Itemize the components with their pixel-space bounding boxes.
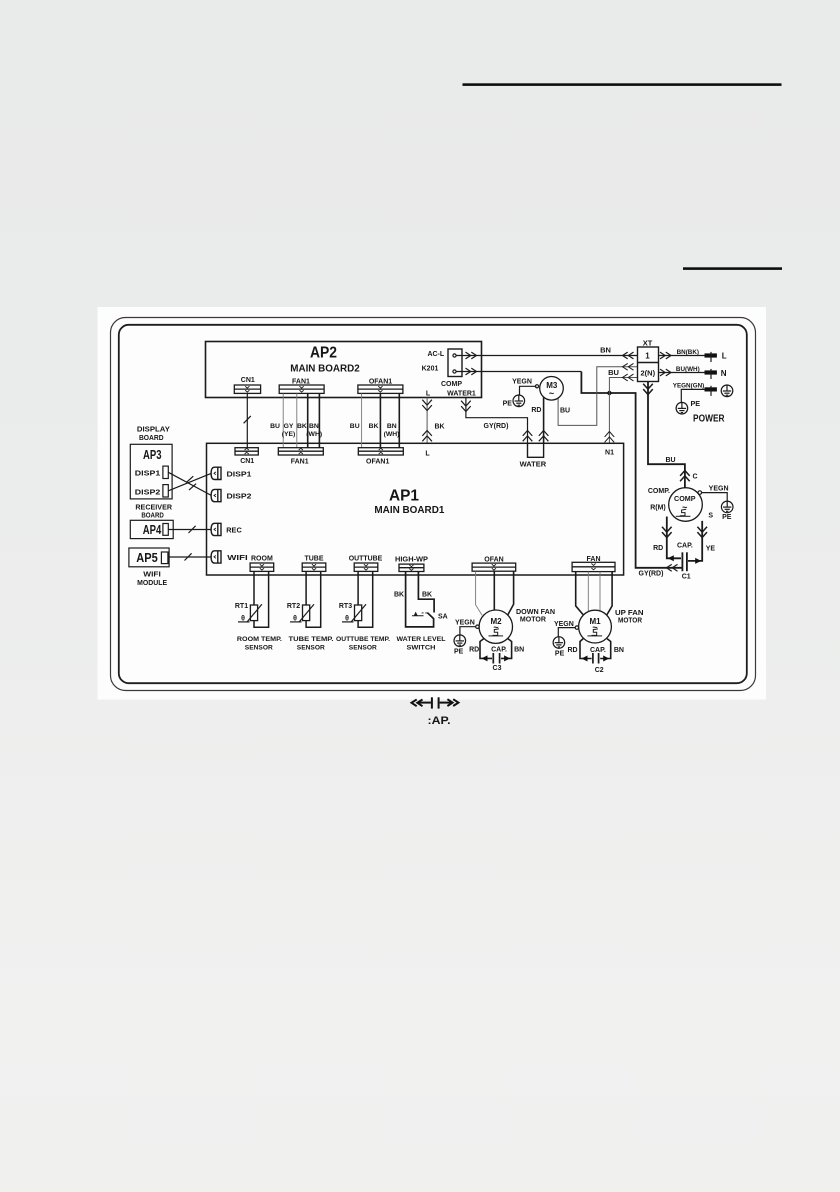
wire M3 to PE	[520, 386, 537, 394]
svg-text:AP5: AP5	[136, 550, 158, 565]
svg-text:GY: GY	[284, 423, 294, 430]
wire M1 BN to C2	[600, 639, 611, 659]
connector FAN1 lower	[278, 448, 323, 455]
connector DISP2 (AP1)	[211, 489, 221, 501]
svg-text:MODULE: MODULE	[137, 578, 167, 587]
svg-text:C2: C2	[595, 667, 604, 674]
svg-text:(YE): (YE)	[282, 431, 296, 438]
svg-text:REC: REC	[226, 527, 242, 534]
SA dashed actuator	[422, 612, 428, 614]
svg-text:ROOM TEMP.: ROOM TEMP.	[237, 636, 282, 643]
RT2 body	[303, 605, 310, 621]
svg-text:AP4: AP4	[143, 522, 162, 537]
wire AP4 to REC	[168, 529, 211, 531]
svg-text:POWER: POWER	[693, 414, 725, 425]
FAN wire 4	[607, 572, 612, 616]
svg-text:YEGN: YEGN	[455, 620, 475, 627]
OFAN wire mid	[493, 571, 495, 610]
svg-text:OFAN1: OFAN1	[366, 459, 389, 466]
svg-text:WATER1: WATER1	[447, 391, 476, 398]
wire COMP S to C1 (thick)	[688, 521, 702, 561]
outer rounded frame	[111, 318, 756, 691]
connector WIFI (AP1)	[211, 551, 221, 563]
wire XT cell2 upper to M3 BU	[558, 367, 637, 426]
DOWN FAN MOTOR caption	[516, 607, 555, 624]
COMP YEGN terminal	[698, 491, 702, 495]
OFAN1 wire BN	[398, 393, 400, 447]
RT1 body	[250, 605, 257, 621]
svg-text:CAP.: CAP.	[491, 646, 507, 653]
WIFI MODULE caption	[137, 569, 167, 587]
svg-text:BU: BU	[665, 457, 675, 464]
svg-text:AP3: AP3	[143, 447, 162, 462]
receiver board AP4	[130, 520, 173, 538]
svg-text:SWITCH: SWITCH	[407, 645, 436, 652]
connector TUBE	[302, 563, 326, 571]
connector DISP1 (AP1)	[211, 467, 221, 479]
svg-text:OUTTUBE: OUTTUBE	[349, 556, 383, 563]
svg-text:C1: C1	[682, 574, 691, 581]
K201 pin 1	[453, 354, 456, 357]
RT3 body	[355, 605, 362, 621]
svg-text:DISP1: DISP1	[227, 472, 252, 479]
svg-text:MAIN BOARD2: MAIN BOARD2	[290, 364, 360, 375]
L power terminal	[705, 352, 717, 362]
svg-text:DISP1: DISP1	[135, 470, 161, 477]
thermistor RT1 loop	[254, 571, 269, 627]
M3 YEGN terminal	[535, 385, 538, 388]
svg-text:BK: BK	[435, 424, 445, 431]
K201 pin 2	[453, 370, 456, 373]
wire K201 pin2 to junction and C1 (thick)	[456, 371, 581, 373]
svg-text:OUTTUBE TEMP.: OUTTUBE TEMP.	[336, 636, 390, 643]
DISP1 pin (AP3)	[163, 466, 168, 478]
svg-text:WIFI: WIFI	[227, 555, 248, 562]
svg-text:R(M): R(M)	[650, 505, 666, 512]
svg-text:AC-L: AC-L	[427, 351, 444, 358]
junction node N	[607, 391, 611, 395]
svg-text:BN: BN	[600, 346, 611, 355]
wire COMP to PE	[702, 493, 728, 501]
water pump motor M3	[540, 377, 564, 401]
svg-text:SENSOR: SENSOR	[245, 645, 273, 652]
FAN wire 2	[587, 572, 589, 612]
connector CN1 lower	[235, 448, 258, 455]
connector FAN	[572, 562, 615, 571]
OFAN1 wire labels	[350, 423, 400, 438]
svg-text:PE: PE	[691, 399, 701, 408]
svg-text:TUBE: TUBE	[304, 556, 323, 563]
svg-text:DISP2: DISP2	[135, 490, 161, 497]
svg-text:TUBE TEMP.: TUBE TEMP.	[289, 636, 334, 643]
svg-text:ROOM: ROOM	[251, 556, 273, 563]
svg-text:PE: PE	[555, 650, 565, 657]
svg-text:S: S	[708, 513, 713, 520]
capacitor C2	[593, 653, 599, 664]
svg-text:CAP.: CAP.	[590, 647, 606, 654]
svg-text:SA: SA	[438, 614, 448, 621]
OUTTUBE TEMP. SENSOR caption	[336, 636, 390, 652]
svg-text:YEGN: YEGN	[554, 621, 574, 628]
svg-text:SENSOR: SENSOR	[349, 645, 377, 652]
svg-text:BN: BN	[387, 423, 397, 430]
svg-text:BU: BU	[270, 423, 280, 430]
down fan motor M2	[479, 610, 512, 643]
svg-text:FAN1: FAN1	[291, 459, 309, 466]
display board AP3	[130, 444, 172, 499]
AP4 pin	[163, 524, 168, 536]
capacitor C1	[682, 552, 687, 571]
RECEIVER BOARD caption	[135, 502, 172, 519]
ROOM TEMP. SENSOR caption	[237, 636, 282, 652]
svg-text:RD: RD	[567, 647, 577, 654]
connector HIGH-WP	[399, 564, 424, 571]
OFAN1 wire BU	[361, 393, 363, 447]
FAN1 wire BN	[318, 393, 320, 447]
svg-text:COMP: COMP	[441, 381, 462, 388]
svg-text:GY(RD): GY(RD)	[484, 423, 509, 430]
connector OFAN	[472, 563, 516, 571]
svg-text:FAN: FAN	[587, 556, 601, 563]
svg-text:BU: BU	[350, 423, 360, 430]
svg-text:YEGN(GN): YEGN(GN)	[673, 382, 705, 389]
connector REC (AP1)	[211, 523, 221, 535]
svg-text:RD: RD	[653, 545, 663, 552]
BK labels (switch)	[394, 592, 432, 599]
OFAN wire left	[476, 571, 483, 615]
wire M1 RD to C2	[580, 639, 592, 659]
OFAN wire right	[508, 571, 514, 615]
wire WATER1 output to AP1	[466, 398, 528, 444]
wire L output to AP1	[426, 398, 428, 444]
wire M2 BN to C3	[501, 639, 512, 659]
svg-text:BU: BU	[608, 368, 619, 377]
legend capacitor symbol	[412, 697, 459, 708]
TUBE TEMP. SENSOR caption	[289, 636, 334, 652]
FAN1 wire BU	[282, 393, 284, 447]
power earth symbol	[721, 385, 733, 397]
connector FAN1 upper	[279, 385, 324, 393]
wire BN: K201 pin1 to XT cell1	[456, 355, 638, 357]
svg-text:PE: PE	[503, 401, 513, 408]
svg-text:L: L	[722, 352, 727, 361]
FAN1 wire BK	[307, 393, 309, 447]
connector OUTTUBE	[354, 563, 378, 571]
svg-text:CN1: CN1	[241, 377, 255, 384]
FAN wire 3	[599, 572, 601, 611]
svg-text:BOARD: BOARD	[139, 433, 164, 442]
svg-text:SENSOR: SENSOR	[297, 645, 325, 652]
svg-text:BN: BN	[614, 647, 624, 654]
DISPLAY BOARD caption	[137, 425, 170, 442]
svg-text:N1: N1	[605, 450, 614, 457]
svg-text:~: ~	[682, 503, 687, 513]
wire M2 RD to C3	[480, 639, 492, 659]
header underline 2	[683, 267, 782, 270]
svg-text::AP.: :AP.	[428, 715, 451, 727]
svg-text:XT: XT	[643, 339, 653, 348]
AP5 pin	[161, 552, 168, 564]
water level switch SA wiring	[406, 572, 435, 627]
wire N1: junction to AP1	[608, 393, 610, 443]
svg-text:HIGH-WP: HIGH-WP	[395, 557, 428, 564]
N power terminal	[705, 369, 717, 379]
svg-text:CN1: CN1	[240, 458, 254, 465]
FAN1 wire labels	[270, 423, 322, 438]
svg-text:COMP.: COMP.	[648, 488, 670, 495]
main board 1 box AP1	[207, 443, 624, 575]
svg-text:OFAN1: OFAN1	[369, 378, 392, 385]
PE ground (comp)	[721, 501, 733, 513]
wire XT1 to L terminal	[659, 355, 707, 357]
svg-text:MAIN BOARD1: MAIN BOARD1	[374, 505, 444, 516]
thermistor RT2 loop	[306, 571, 321, 627]
PE ground (M2)	[454, 635, 466, 647]
svg-text:C3: C3	[493, 665, 502, 672]
wire XT cell2 lower to junction	[609, 378, 637, 394]
crossed wire AP3 pin1 to DISP2	[168, 472, 211, 495]
svg-text:PE: PE	[454, 649, 464, 656]
svg-text:BN: BN	[514, 646, 524, 653]
header underline 1	[463, 83, 782, 86]
PE ground (M3)	[513, 395, 525, 407]
thermistor RT3 loop	[358, 571, 373, 627]
compressor COMP	[669, 488, 703, 522]
connector ROOM	[250, 563, 274, 571]
svg-text:OFAN: OFAN	[484, 556, 503, 563]
svg-text:RT1: RT1	[235, 603, 248, 610]
svg-text:BU(WH): BU(WH)	[676, 366, 700, 373]
GN power terminal	[705, 386, 717, 396]
FAN1 wire GY	[296, 393, 298, 447]
terminal block XT	[638, 347, 659, 382]
svg-text:(WH): (WH)	[384, 431, 400, 438]
svg-text:BK: BK	[297, 423, 307, 430]
svg-text:L: L	[425, 451, 430, 458]
relay K201	[448, 349, 462, 377]
DISP2 pin (AP3)	[163, 485, 168, 497]
white diagram panel	[98, 307, 767, 700]
svg-text:FAN1: FAN1	[292, 378, 310, 385]
wifi board AP5	[129, 548, 169, 567]
svg-text:AP2: AP2	[310, 345, 337, 362]
svg-text:CAP.: CAP.	[677, 543, 693, 550]
PE ground (power)	[676, 402, 688, 414]
M1 YEGN terminal	[575, 626, 578, 629]
wire AP5 to WIFI	[168, 556, 212, 558]
wire XT2 to N terminal	[659, 372, 707, 374]
svg-text:RT3: RT3	[339, 603, 352, 610]
capacitor C3	[493, 653, 499, 664]
WATER LEVEL SWITCH caption	[397, 636, 446, 652]
svg-text:MOTOR: MOTOR	[520, 615, 547, 624]
wire PE to GN terminal	[681, 389, 706, 402]
PE ground (M1)	[553, 637, 565, 649]
up fan motor M1	[579, 610, 612, 643]
UP FAN MOTOR caption	[615, 608, 644, 625]
svg-text:AP1: AP1	[389, 488, 419, 505]
svg-text:BK: BK	[369, 423, 379, 430]
svg-text:BOARD: BOARD	[141, 511, 164, 520]
svg-text:RD: RD	[469, 646, 479, 653]
wire CN1 to CN1	[246, 393, 248, 447]
svg-text:L: L	[426, 391, 431, 398]
wire M3 RD to AP1 (thick)	[543, 397, 545, 443]
wire M1 to PE	[558, 628, 575, 637]
svg-text:BN(BK): BN(BK)	[677, 349, 699, 356]
svg-text:DISP2: DISP2	[227, 493, 252, 500]
svg-text:PE: PE	[722, 514, 732, 521]
svg-text:YEGN: YEGN	[512, 379, 532, 386]
svg-text:RT2: RT2	[287, 603, 300, 610]
svg-text:RD: RD	[531, 407, 541, 414]
RD CAP. BN labels (C2)	[567, 647, 624, 654]
M2 YEGN terminal	[476, 625, 479, 628]
svg-text:YE: YE	[706, 546, 716, 553]
inner rounded frame	[119, 325, 747, 683]
connector OFAN1 upper	[358, 385, 403, 393]
svg-text:YEGN: YEGN	[709, 486, 729, 493]
OFAN1 wire BK	[379, 393, 381, 447]
FAN wire 1	[576, 572, 584, 616]
connector CN1 upper	[234, 385, 260, 393]
water U link below AP1 edge	[528, 443, 544, 457]
RD CAP. BN labels (C3)	[469, 646, 524, 653]
svg-text:MOTOR: MOTOR	[618, 616, 643, 625]
SA fixed contact	[412, 613, 424, 616]
wire M2 to PE	[460, 627, 476, 635]
svg-text:2(N): 2(N)	[641, 369, 656, 378]
svg-text:BN: BN	[309, 423, 319, 430]
wire COMP R to C1 (thick)	[667, 517, 681, 559]
crossed wire AP3 pin2 to DISP1	[168, 473, 211, 491]
svg-text:GY(RD): GY(RD)	[639, 571, 664, 578]
svg-text:WATER LEVEL: WATER LEVEL	[397, 636, 446, 643]
svg-text:BK: BK	[422, 592, 432, 599]
svg-text:1: 1	[645, 352, 650, 361]
svg-text:~: ~	[549, 389, 554, 399]
GY(RD) chevrons near C1	[667, 564, 678, 571]
svg-text:N: N	[721, 369, 727, 378]
svg-text:K201: K201	[422, 366, 439, 373]
svg-text:BU: BU	[560, 408, 570, 415]
svg-text:WIFI: WIFI	[143, 569, 161, 578]
main board 2 box AP2	[206, 342, 482, 398]
slash ticks on display wires	[186, 476, 193, 482]
svg-text:(WH): (WH)	[306, 431, 322, 438]
connector OFAN1 lower	[358, 448, 403, 455]
svg-text:WATER: WATER	[520, 460, 547, 469]
svg-text:C: C	[693, 474, 698, 481]
svg-text:BK: BK	[394, 592, 404, 599]
wire XT2 bottom to COMP C (thick)	[648, 382, 685, 489]
